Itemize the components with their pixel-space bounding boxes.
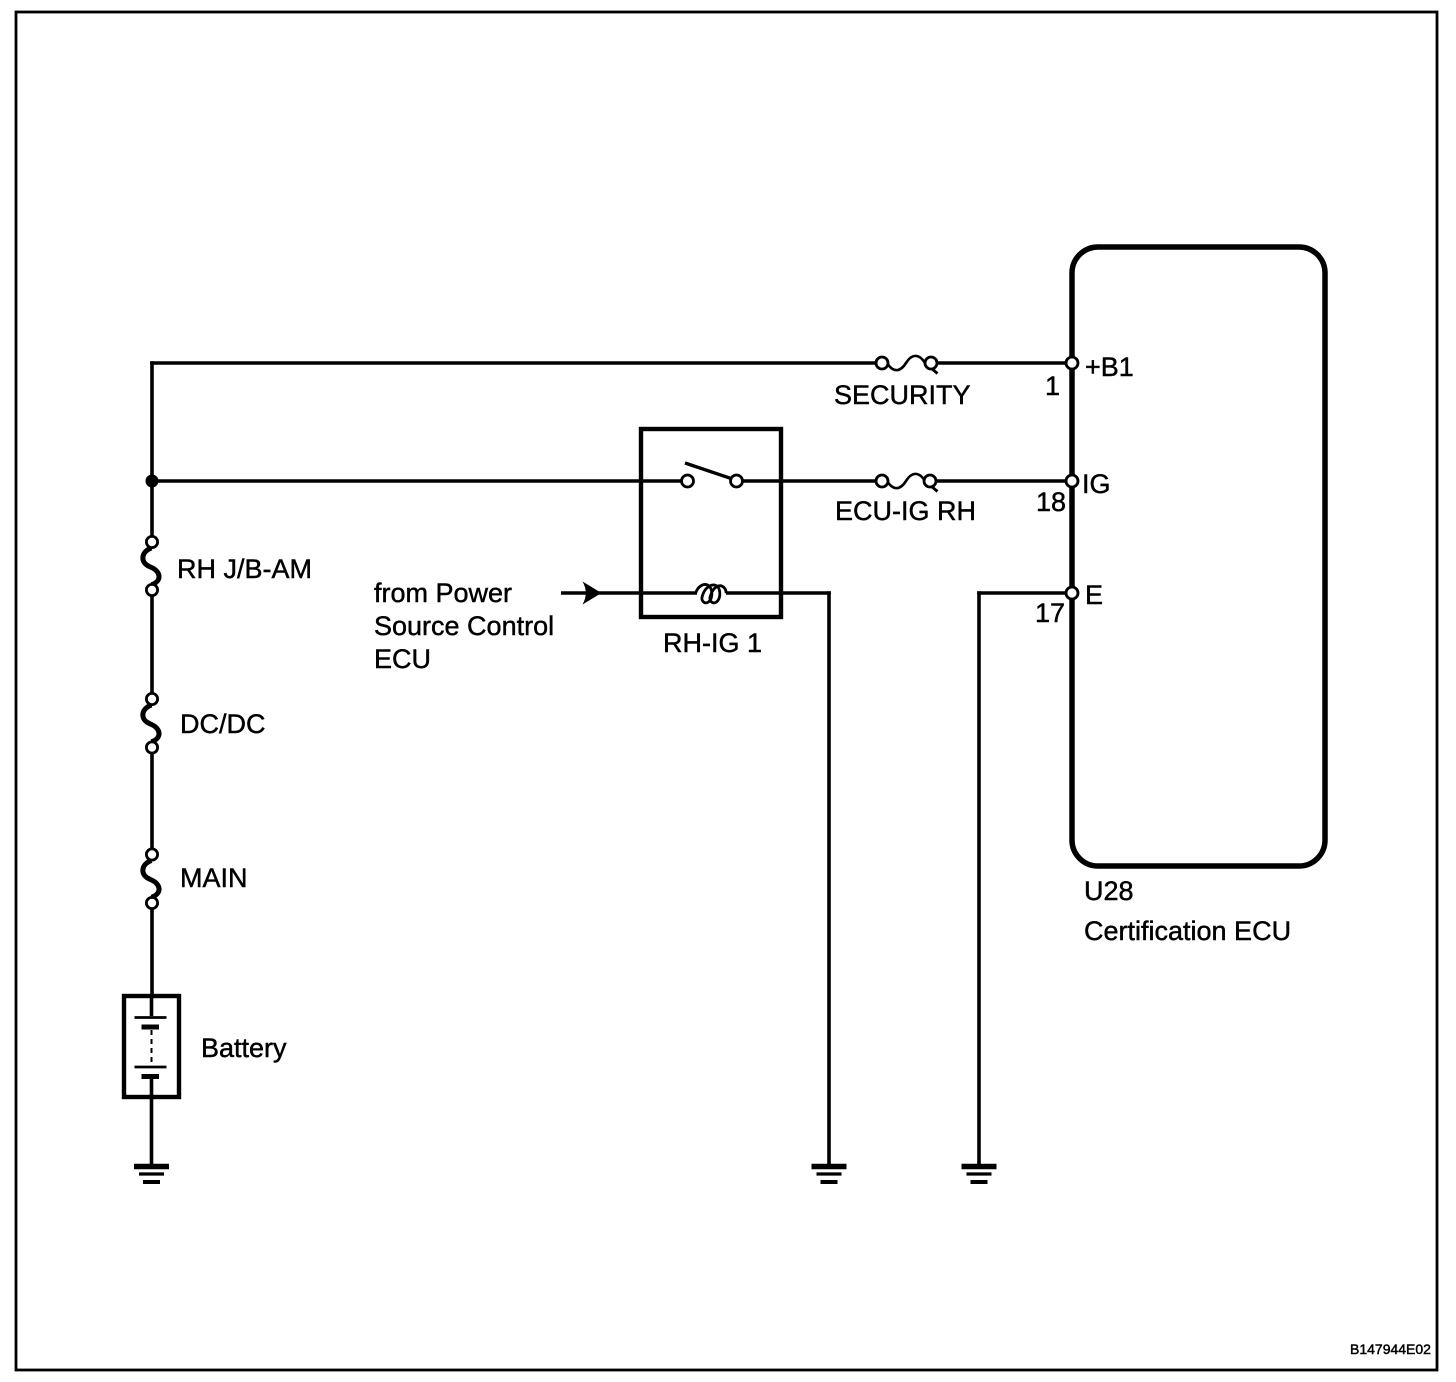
wire relay coil net (arrow input to ground) <box>561 591 831 1164</box>
wire +B1 net (battery column to pin 1) <box>150 361 1072 365</box>
svg-text:18: 18 <box>1036 487 1066 517</box>
svg-text:Certification ECU: Certification ECU <box>1084 916 1291 946</box>
svg-text:U28: U28 <box>1084 876 1134 906</box>
fusible link MAIN <box>143 849 159 909</box>
svg-text:ECU: ECU <box>374 644 431 674</box>
pin E terminal <box>1066 587 1078 599</box>
svg-text:from Power: from Power <box>374 578 512 608</box>
ground (ECU pin E) <box>962 1167 997 1183</box>
battery BAT <box>124 996 179 1164</box>
svg-text:+B1: +B1 <box>1085 352 1134 382</box>
ECU U28 block outline <box>1072 247 1325 866</box>
wire E net (pin 17 to ground) <box>977 591 1072 1164</box>
svg-text:17: 17 <box>1035 598 1065 628</box>
svg-text:Battery: Battery <box>201 1033 287 1063</box>
relay coil L1 <box>696 585 727 603</box>
svg-text:ECU-IG RH: ECU-IG RH <box>835 496 976 526</box>
pin IG terminal <box>1066 475 1078 487</box>
svg-text:1: 1 <box>1045 371 1060 401</box>
fusible link DC/DC <box>143 693 159 753</box>
svg-text:E: E <box>1085 580 1103 610</box>
wire IG net (junction to pin 18 through relay contacts) <box>152 479 1072 483</box>
svg-text:RH J/B-AM: RH J/B-AM <box>177 554 312 584</box>
fuse SECURITY <box>876 356 938 374</box>
svg-text:RH-IG 1: RH-IG 1 <box>663 628 762 658</box>
ground (battery) <box>134 1167 169 1183</box>
arrow head (signal from Power Source Control ECU) <box>583 582 602 605</box>
fuse ECU-IG RH <box>876 474 938 492</box>
ground (relay coil) <box>812 1167 847 1183</box>
relay RH-IG 1 box <box>641 429 781 617</box>
wire left battery column <box>150 361 154 996</box>
svg-text:DC/DC: DC/DC <box>180 709 266 739</box>
label from Power Source Control ECU <box>374 578 554 674</box>
fusible link RH J/B-AM <box>143 536 159 595</box>
svg-text:IG: IG <box>1082 469 1111 499</box>
svg-text:Source Control: Source Control <box>374 611 554 641</box>
svg-text:SECURITY: SECURITY <box>834 380 971 410</box>
relay contact switch <box>682 463 743 487</box>
pin +B1 terminal <box>1066 357 1078 369</box>
junction node (left column / IG wire) <box>146 475 159 488</box>
svg-text:B147944E02: B147944E02 <box>1350 1341 1431 1357</box>
svg-text:MAIN: MAIN <box>180 863 248 893</box>
